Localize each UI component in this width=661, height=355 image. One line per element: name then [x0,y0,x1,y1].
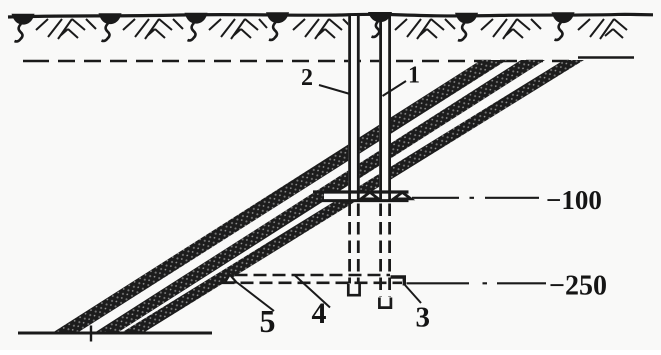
svg-text:−100: −100 [546,185,602,215]
svg-text:3: 3 [416,302,431,334]
borehole 2 casing (white fill) [348,16,359,202]
svg-text:2: 2 [301,65,313,91]
grass tuft 1 [12,14,35,42]
soil hatch group 7 [578,19,627,39]
borehole 1 bottom shoe [379,298,391,308]
baseline at bottom left [18,332,212,335]
borehole 2 walls [350,16,359,202]
drift end triangle marker [225,275,237,283]
grass tuft 3 [185,13,208,41]
datum line right solid segment [578,56,634,59]
borehole 1 walls [381,15,390,203]
svg-text:1: 1 [408,62,420,88]
soil hatch group 4 [293,19,353,39]
ore vein band B [94,60,545,333]
leader line to borehole 2 [319,85,350,94]
svg-text:5: 5 [260,303,276,339]
soil hatch group 1 [36,19,96,39]
marker triangle T1 [361,192,379,199]
soil hatch group 2 [123,19,183,39]
leader line to elbow 3 [405,285,422,304]
level line -250 (dash-dot) [407,282,547,284]
grass tuft 5 over borehole 1 [368,12,392,37]
leader line to drift 4 [295,276,330,308]
survey tick cross [90,326,92,342]
soil hatch group 3 [209,19,267,39]
svg-text:4: 4 [312,297,327,330]
svg-text:−250: −250 [549,271,607,302]
grass tuft 6 [455,13,478,41]
grass tuft 7 [552,12,575,40]
soil hatch group 6 [481,19,541,39]
drift tunnel -100 bottom line [318,199,409,202]
ore vein band C [121,60,584,333]
planned drift -250 upper dashed line [235,274,391,277]
leader line to triangle 5 [237,283,274,312]
borehole 1 casing (white fill) [379,14,391,202]
level line -100 (dash-dot) [412,197,539,199]
ore vein band A [52,60,507,333]
ground surface line [8,14,653,17]
planned drift -250 lower dashed line [222,281,403,284]
soil hatch group 5 [395,19,455,39]
grass tuft 2 [99,13,122,41]
drift tunnel -100 top line [313,190,409,193]
borehole 2 bottom shoe [348,284,359,295]
drift tunnel -100 excavated white channel [324,193,409,199]
marker triangle T2 [394,192,412,199]
leader line to borehole 1 [383,81,407,96]
borehole 1 elbow at -250 [391,277,405,286]
subsurface dashed datum line [23,60,49,62]
grass tuft 4 [266,12,289,40]
borehole 1 dashed continuation [381,204,390,297]
borehole 2 dashed continuation [350,204,359,284]
